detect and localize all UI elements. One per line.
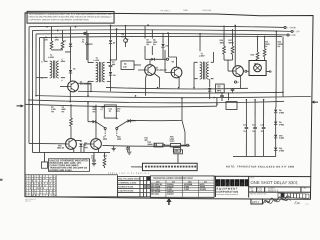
svg-text:REV.: REV. bbox=[303, 188, 307, 190]
transistor Q1 bbox=[68, 81, 79, 92]
bus +10V(B) bbox=[29, 26, 284, 28]
svg-text:L-4007: L-4007 bbox=[199, 55, 206, 58]
sheet border bbox=[25, 13, 313, 199]
potentiometer group R15 bbox=[154, 143, 156, 146]
transistor Q6 bbox=[91, 139, 102, 150]
contact circles bbox=[104, 127, 106, 129]
notice box bbox=[27, 11, 114, 23]
bottom joining wire bbox=[233, 155, 276, 157]
transistor Q3 bbox=[171, 67, 182, 78]
middle rails bbox=[106, 87, 248, 89]
terminal below Q4 bbox=[234, 81, 236, 83]
DEC logo bbox=[216, 179, 249, 187]
svg-text:5%: 5% bbox=[92, 111, 95, 113]
svg-text:1-2-1: 1-2-1 bbox=[305, 204, 309, 206]
capacitor verticals C13 C14 C15 bbox=[245, 100, 247, 127]
svg-text:CORPORATION: CORPORATION bbox=[216, 190, 238, 194]
neon lamp NE-2 bbox=[254, 64, 262, 72]
ground 2 bbox=[128, 146, 130, 151]
notes block bbox=[48, 159, 89, 172]
production table bbox=[117, 176, 150, 196]
svg-text:MFD: MFD bbox=[217, 90, 222, 92]
left margin revision arrow bbox=[16, 104, 24, 107]
svg-text:MFD: MFD bbox=[89, 44, 94, 46]
svg-text:TITLE: TITLE bbox=[250, 177, 254, 179]
bus GND B bbox=[40, 36, 283, 37]
svg-text:F.w.: F.w. bbox=[294, 201, 300, 205]
svg-text:5%: 5% bbox=[153, 44, 156, 46]
svg-text:B CIRCUIT 5-4-65: B CIRCUIT 5-4-65 bbox=[118, 185, 134, 188]
diode D11 bbox=[275, 138, 277, 147]
wire Q5 emitter to D7 bbox=[75, 140, 81, 142]
transistor Q4 bbox=[233, 66, 244, 77]
lower rail bbox=[102, 144, 190, 147]
ground 3 bbox=[126, 151, 128, 153]
collector wire with pulse diode bbox=[145, 58, 166, 60]
diode D4 bbox=[87, 102, 95, 123]
svg-text:TRANSISTOR & DIODE CONVERSION: TRANSISTOR & DIODE CONVERSION CHART bbox=[153, 177, 194, 180]
svg-text:2N2904: 2N2904 bbox=[167, 193, 174, 196]
conversion chart bbox=[150, 176, 214, 197]
terminal E bbox=[291, 30, 293, 32]
capacitor C11 bbox=[232, 88, 234, 89]
svg-text:NOTE: TRANSISTOR ENCLOSED ON K: NOTE: TRANSISTOR ENCLOSED ON KIT 5MB bbox=[226, 165, 294, 168]
resistor R6 box bbox=[121, 61, 134, 70]
svg-text:A TERMINAL 2-16-65: A TERMINAL 2-16-65 bbox=[118, 181, 137, 184]
svg-text:5%: 5% bbox=[146, 44, 149, 46]
bus -15V bbox=[33, 30, 292, 32]
terminal D bbox=[284, 26, 286, 28]
parts list table bbox=[25, 175, 118, 197]
terminal H bbox=[84, 32, 86, 34]
left bus verticals bbox=[28, 27, 30, 144]
diode D9 bbox=[275, 113, 277, 121]
size code number row bbox=[250, 188, 307, 190]
resistor R8 bbox=[151, 29, 153, 38]
svg-text:ONE SHOT DELAY 8301: ONE SHOT DELAY 8301 bbox=[250, 180, 298, 185]
diode D3b bbox=[109, 72, 112, 75]
diode D5 bbox=[162, 33, 164, 44]
right margin arrow bbox=[311, 100, 318, 103]
svg-text:5%: 5% bbox=[278, 46, 281, 48]
dist box bbox=[251, 199, 263, 204]
diode D7 bbox=[79, 143, 82, 146]
svg-text:.01%: .01% bbox=[115, 111, 119, 113]
svg-text:DEC FORM NO: DEC FORM NO bbox=[25, 199, 37, 201]
terminal F bbox=[287, 34, 289, 36]
small jack box bbox=[174, 150, 183, 154]
bottom margin arrow bbox=[166, 198, 171, 205]
svg-text:CIRCUITS ARE PROPRIETARY IN NA: CIRCUITS ARE PROPRIETARY IN NATURE AND S… bbox=[29, 16, 113, 19]
title block top edge bbox=[214, 175, 311, 177]
svg-text:◄◄ 1-DEL-1: ◄◄ 1-DEL-1 bbox=[160, 10, 170, 12]
scan mark left edge bbox=[0, 179, 3, 181]
wire joining R1 R2 bbox=[52, 49, 63, 51]
long vertical from bus2 bbox=[275, 31, 277, 107]
capacitor C10 bbox=[216, 84, 225, 93]
svg-text:DIST: DIST bbox=[252, 200, 259, 204]
diode D3a bbox=[110, 25, 112, 39]
signature scribble bbox=[263, 196, 289, 204]
resistor R7 bbox=[144, 26, 146, 39]
svg-text:C OUTPUT 9-8-65: C OUTPUT 9-8-65 bbox=[118, 190, 134, 192]
diode chain D8 bbox=[275, 107, 277, 109]
svg-text:E -15V: E -15V bbox=[294, 31, 301, 33]
svg-text:MOL. TRL.X(ONE SHOT): MOL. TRL.X(ONE SHOT) bbox=[118, 178, 140, 180]
svg-text:t: t bbox=[236, 181, 238, 187]
svg-text:PRINTED CIRCUIT REV.: PRINTED CIRCUIT REV. bbox=[250, 193, 267, 195]
svg-text:F GND: F GND bbox=[290, 35, 297, 37]
svg-text:74865: 74865 bbox=[183, 10, 188, 12]
svg-text:COPYRIGHT 1968 BY DIGITAL EQUI: COPYRIGHT 1968 BY DIGITAL EQUIPMENT CORP… bbox=[29, 18, 90, 21]
svg-text:DEC2904: DEC2904 bbox=[151, 193, 160, 196]
label box bbox=[104, 105, 116, 118]
lamp terminals bbox=[245, 70, 247, 72]
transistor Q2 bbox=[145, 65, 156, 76]
svg-text:1.5K: 1.5K bbox=[123, 67, 127, 69]
svg-text:7W: 7W bbox=[51, 111, 54, 113]
svg-text:L-5000: L-5000 bbox=[48, 57, 55, 59]
diode D7 bbox=[127, 119, 136, 122]
title block divider bbox=[214, 176, 216, 197]
box F bbox=[41, 162, 47, 168]
connector strip bbox=[142, 163, 197, 170]
svg-text:2894-1B: 2894-1B bbox=[57, 147, 65, 150]
input arrow line bbox=[25, 104, 216, 107]
lamp box bbox=[249, 60, 266, 75]
svg-text:g: g bbox=[226, 181, 229, 187]
svg-text:1-DEL-2009: 1-DEL-2009 bbox=[202, 10, 211, 12]
svg-text:5%: 5% bbox=[61, 111, 64, 113]
contact wires bbox=[96, 122, 105, 128]
svg-text:PARTS LIST A-PL-8301-0-1: PARTS LIST A-PL-8301-0-1 bbox=[108, 172, 149, 175]
transistor Q5 bbox=[66, 139, 77, 150]
svg-text:D +10V(B): D +10V(B) bbox=[287, 27, 297, 29]
strip lead wire bbox=[131, 166, 142, 168]
title box bbox=[248, 176, 250, 198]
svg-text:1N3606: 1N3606 bbox=[199, 189, 206, 191]
svg-text:DRB 102: DRB 102 bbox=[25, 201, 31, 203]
diode D6 bbox=[209, 79, 211, 88]
loop wire bbox=[128, 98, 182, 120]
bus GND A bbox=[36, 33, 287, 35]
ground 1 bbox=[113, 146, 115, 149]
lower left wire bbox=[32, 151, 109, 153]
svg-text:*STP*: *STP* bbox=[169, 141, 174, 143]
svg-text:DIODES ARE D-664: DIODES ARE D-664 bbox=[49, 169, 72, 172]
diode D10 bbox=[275, 125, 277, 135]
svg-text:7W: 7W bbox=[175, 150, 178, 152]
svg-text:d: d bbox=[216, 181, 219, 187]
svg-text:L-4007: L-4007 bbox=[94, 59, 101, 62]
diode D2 bbox=[70, 47, 72, 70]
svg-text:THIS SCHEMATIC IS FURNISHED ON: THIS SCHEMATIC IS FURNISHED ONLY FOR TES… bbox=[29, 13, 113, 16]
small box above caps bbox=[226, 102, 237, 110]
